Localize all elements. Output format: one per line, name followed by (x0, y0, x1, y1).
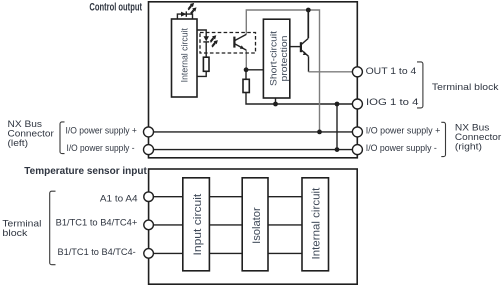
wire collector rail (gray) from phototransistor to + rail (246, 10, 319, 132)
wire I/O power supply - rail (149, 149, 358, 151)
short-circuit protection box U2 (263, 19, 289, 98)
terminal right I/O power supply + (352, 127, 362, 137)
wire collector of output transistor (307, 10, 309, 38)
wire node to short-circuit protection (246, 69, 263, 71)
svg-text:(right): (right) (455, 142, 482, 153)
svg-text:Short-circuit: Short-circuit (268, 31, 279, 86)
svg-text:Isolator: Isolator (251, 207, 263, 244)
bracket terminal block left (50, 191, 56, 265)
wire A1 to A4 (149, 196, 302, 198)
phototransistor Q1 (234, 34, 246, 50)
internal circuit box U5 (302, 178, 329, 271)
svg-text:Internal circuit: Internal circuit (180, 28, 191, 83)
wire indicator LED loop (177, 14, 192, 19)
svg-text:IOG 1 to 4: IOG 1 to 4 (366, 97, 418, 108)
svg-text:I/O power supply +: I/O power supply + (66, 125, 138, 136)
svg-text:Temperature sensor input: Temperature sensor input (24, 166, 147, 177)
svg-text:(left): (left) (8, 138, 29, 149)
svg-text:B1/TC1 to B4/TC4-: B1/TC1 to B4/TC4- (58, 247, 136, 258)
bracket terminal block right (417, 62, 423, 108)
bracket NX bus right (441, 122, 445, 156)
wire B1/TC1 to B4/TC4- (149, 252, 302, 254)
svg-text:A1 to A4: A1 to A4 (100, 194, 138, 205)
isolator box U4 (242, 178, 268, 271)
svg-text:Control output: Control output (89, 1, 142, 13)
terminal right I/O power supply - (352, 145, 362, 155)
wire short-circuit protection to IOG line (275, 98, 277, 104)
wire opto LED anode stub (197, 30, 206, 37)
internal circuit box U1 (172, 19, 198, 97)
terminal A1 to A4 (144, 192, 154, 202)
terminal OUT 1 to 4 (352, 67, 362, 77)
control output block outline (149, 2, 358, 158)
resistor R2 (pull-down to IOG) (243, 79, 249, 92)
wire emitter of phototransistor (gray) (245, 50, 247, 70)
svg-text:B1/TC1 to B4/TC4+: B1/TC1 to B4/TC4+ (56, 217, 138, 228)
wire base of output transistor (290, 46, 300, 48)
optocoupler LED light arrows (211, 35, 218, 47)
optocoupler dashed box (200, 33, 256, 54)
terminal left I/O power supply + (144, 127, 154, 137)
terminal IOG 1 to 4 (352, 99, 362, 109)
bracket NX bus left (60, 122, 65, 154)
terminal left I/O power supply - (144, 145, 154, 155)
output transistor Q2 (301, 38, 309, 56)
optocoupler LED (204, 36, 210, 41)
temperature sensor input block outline (149, 169, 358, 284)
terminal B1/TC1 to B4/TC4- (144, 249, 154, 259)
indicator LED light arrows (188, 3, 196, 15)
svg-text:protection: protection (279, 36, 290, 82)
terminal B1/TC1 to B4/TC4+ (144, 220, 154, 230)
svg-text:I/O power supply -: I/O power supply - (67, 143, 135, 154)
wire I/O power supply + rail (149, 131, 358, 133)
wire IOG to - rail (336, 104, 338, 150)
wire OUT (gray) (309, 71, 353, 73)
svg-text:Internal circuit: Internal circuit (310, 188, 322, 260)
svg-text:I/O power supply -: I/O power supply - (366, 143, 437, 154)
input circuit box U3 (183, 178, 210, 271)
resistor R1 (opto LED series) (203, 57, 209, 71)
wire B1/TC1 to B4/TC4+ (149, 224, 302, 226)
svg-text:Input circuit: Input circuit (192, 194, 204, 256)
wire IOG line (246, 70, 353, 104)
svg-text:block: block (2, 228, 27, 239)
svg-text:I/O power supply +: I/O power supply + (366, 126, 441, 137)
wire emitter of output transistor (308, 56, 310, 71)
wire opto LED cathode to resistor and back to internal circuit (197, 42, 206, 77)
svg-text:OUT 1 to 4: OUT 1 to 4 (366, 66, 417, 77)
indicator LED D1 (181, 12, 186, 17)
svg-text:Terminal block: Terminal block (432, 82, 499, 93)
junction node dots (306, 8, 311, 13)
